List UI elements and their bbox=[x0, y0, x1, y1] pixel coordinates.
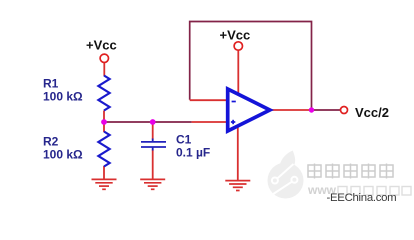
watermark chinese glyph row bbox=[308, 164, 393, 179]
node B output junction dot bbox=[309, 107, 314, 112]
svg-text:R1: R1 bbox=[43, 77, 59, 91]
wire to non-inverting input bbox=[192, 121, 227, 123]
op-amp U1 bbox=[228, 89, 270, 131]
terminal +Vcc op-amp bbox=[234, 42, 242, 50]
ground (below C1) bbox=[140, 179, 165, 189]
wire +Vcc to op-amp V+ pin bbox=[237, 50, 239, 95]
wire to inverting input bbox=[190, 99, 227, 101]
svg-text:Vcc/2: Vcc/2 bbox=[355, 105, 389, 120]
svg-text:R2: R2 bbox=[43, 134, 59, 148]
wire C1 to ground bbox=[152, 150, 154, 180]
node C1 junction dot bbox=[150, 119, 156, 125]
capacitor C1 plates bbox=[141, 139, 166, 151]
wire node A to R2 bbox=[103, 122, 105, 132]
terminal Vcc/2 output bbox=[341, 107, 348, 114]
wire feedback loop (output node up, across top, down to inverting input) bbox=[190, 22, 312, 111]
ground (below op-amp) bbox=[225, 181, 250, 191]
wire R2 to ground bbox=[103, 166, 105, 179]
wire node A to C1 bbox=[152, 122, 154, 140]
wire node A horizontal (R divider junction to below feedback corner) bbox=[104, 121, 192, 123]
watermark grey glyphs behind EEChina bbox=[338, 187, 411, 196]
terminal +Vcc left bbox=[100, 54, 108, 62]
svg-text:+Vcc: +Vcc bbox=[220, 28, 251, 43]
svg-text:100 kΩ: 100 kΩ bbox=[43, 148, 83, 162]
svg-text:100 kΩ: 100 kΩ bbox=[43, 90, 83, 104]
svg-text:0.1 µF: 0.1 µF bbox=[176, 145, 210, 159]
wire R1 to node A bbox=[103, 111, 105, 123]
wire output node to Vcc/2 terminal bbox=[312, 109, 341, 111]
op-amp inverting input mark bbox=[232, 101, 236, 103]
resistor R1 bbox=[98, 76, 109, 111]
watermark logo bbox=[268, 151, 304, 199]
wire +Vcc terminal to R1 bbox=[103, 63, 105, 76]
op-amp non-inverting input mark bbox=[231, 120, 235, 124]
node A junction dot bbox=[101, 119, 107, 125]
ground (below R2) bbox=[92, 179, 117, 189]
svg-text:+Vcc: +Vcc bbox=[86, 37, 117, 52]
resistor R2 bbox=[98, 132, 109, 167]
wire op-amp V- pin to ground bbox=[237, 125, 239, 181]
svg-text:-EEChina.com: -EEChina.com bbox=[327, 192, 397, 204]
wire op-amp output to node B bbox=[269, 109, 312, 111]
